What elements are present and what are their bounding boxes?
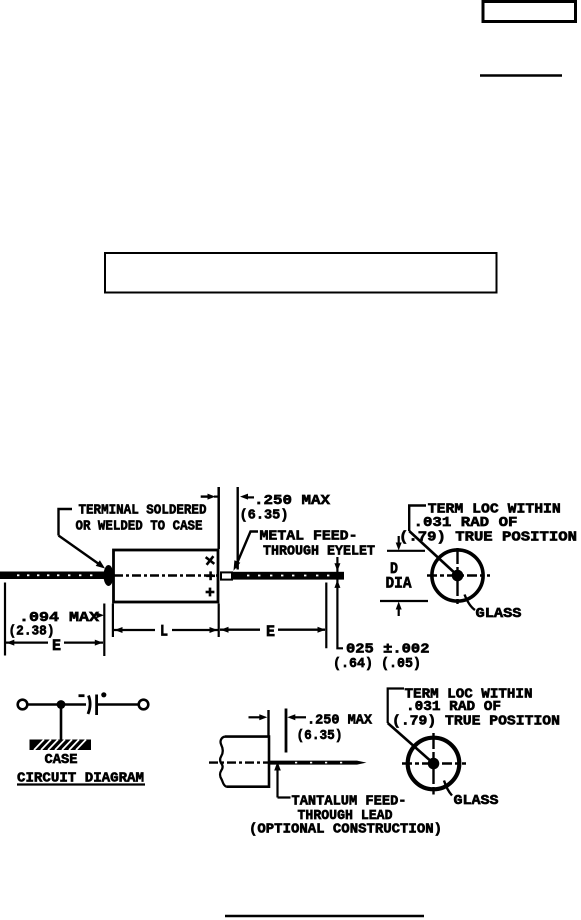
- svg-text:CASE: CASE: [45, 752, 78, 768]
- svg-text:(6.35): (6.35): [297, 728, 343, 744]
- svg-text:(.64) (.05): (.64) (.05): [333, 656, 421, 672]
- svg-text:GLASS: GLASS: [454, 793, 499, 809]
- svg-text:(OPTIONAL CONSTRUCTION): (OPTIONAL CONSTRUCTION): [249, 822, 442, 838]
- svg-text:DIA: DIA: [386, 575, 412, 593]
- svg-text:GLASS: GLASS: [476, 606, 522, 622]
- svg-text:.250 MAX: .250 MAX: [307, 713, 373, 729]
- svg-text:METAL FEED-: METAL FEED-: [260, 529, 358, 545]
- svg-text:(2.38): (2.38): [9, 624, 55, 640]
- svg-text:E: E: [52, 637, 61, 655]
- svg-text:CIRCUIT DIAGRAM: CIRCUIT DIAGRAM: [17, 771, 144, 787]
- svg-text:(.79) TRUE POSITION: (.79) TRUE POSITION: [399, 530, 577, 546]
- svg-text:THROUGH EYELET: THROUGH EYELET: [263, 544, 375, 560]
- svg-text:(6.35): (6.35): [240, 508, 289, 524]
- svg-text:(.79) TRUE POSITION: (.79) TRUE POSITION: [392, 714, 560, 730]
- svg-text:OR WELDED TO CASE: OR WELDED TO CASE: [76, 519, 203, 535]
- svg-text:E: E: [266, 623, 275, 641]
- svg-text:TERMINAL SOLDERED: TERMINAL SOLDERED: [79, 503, 207, 519]
- svg-text:L: L: [160, 623, 168, 641]
